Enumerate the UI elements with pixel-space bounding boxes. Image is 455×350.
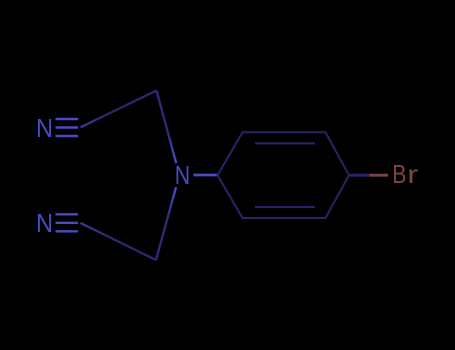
benzene ring C6H4 xyxy=(218,132,350,218)
wire C to CH2 apex (bottom) xyxy=(81,223,157,260)
double bond inner line (top) xyxy=(255,142,315,144)
wire CH2 apex to N (top) xyxy=(157,91,177,164)
wire CH2 apex to N (bottom) xyxy=(156,187,176,260)
wire ring to Br (bromine half) xyxy=(370,174,389,177)
wire ring to Br (carbon half) xyxy=(349,174,370,177)
svg-text:N: N xyxy=(175,160,190,190)
svg-text:N: N xyxy=(36,113,53,143)
triple bond C#N (bottom) xyxy=(56,214,79,231)
wire C to CH2 apex (top) xyxy=(81,91,157,128)
double bond inner line (bottom) xyxy=(255,206,315,208)
svg-text:r: r xyxy=(407,159,418,189)
triple bond C#N (top) xyxy=(56,119,79,136)
svg-text:N: N xyxy=(36,208,53,238)
svg-text:B: B xyxy=(392,159,406,189)
wire N to phenyl ring xyxy=(194,174,219,177)
